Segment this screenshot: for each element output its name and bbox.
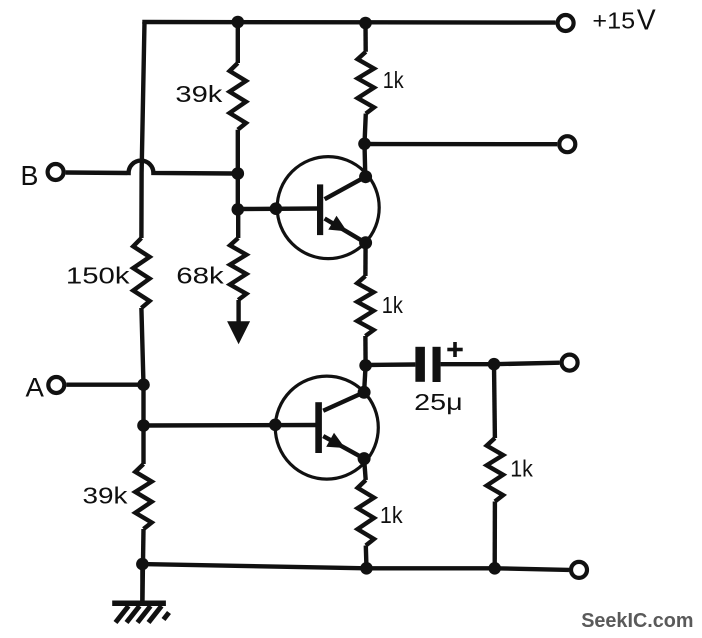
svg-text:V: V — [637, 5, 656, 37]
svg-text:A: A — [26, 372, 44, 402]
svg-text:150k: 150k — [66, 263, 130, 289]
svg-text:B: B — [21, 160, 39, 191]
svg-text:68k: 68k — [176, 263, 224, 289]
svg-text:SeekIC.com: SeekIC.com — [581, 610, 693, 632]
svg-text:+15: +15 — [592, 8, 635, 34]
svg-text:25μ: 25μ — [414, 389, 463, 415]
svg-text:1k: 1k — [383, 67, 404, 93]
svg-text:1k: 1k — [380, 502, 403, 528]
svg-text:1k: 1k — [382, 292, 404, 318]
svg-text:39k: 39k — [175, 81, 223, 107]
svg-text:1k: 1k — [510, 455, 533, 481]
svg-text:39k: 39k — [83, 483, 129, 509]
